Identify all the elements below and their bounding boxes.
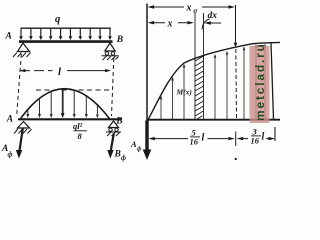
dx leader <box>202 19 210 30</box>
fictitious beam baseline <box>18 118 121 120</box>
label Af <box>1 144 13 159</box>
svg-text:A: A <box>6 114 13 124</box>
bottom dimension line 3/16 l <box>237 137 275 140</box>
reaction arrow Af (left, downward) <box>20 129 23 151</box>
dashed axis line below support A <box>17 54 22 114</box>
svg-text:l: l <box>58 66 62 78</box>
label x_c <box>186 3 199 15</box>
svg-text:A: A <box>5 32 12 42</box>
svg-text:B: B <box>114 150 121 160</box>
centroid line (solid above curve with down arrow) <box>235 5 237 43</box>
support A hatching <box>13 53 31 58</box>
label 5/16 l <box>190 128 205 147</box>
svg-text:16: 16 <box>251 136 260 146</box>
svg-text:M(x): M(x) <box>176 88 193 97</box>
fictitious load ordinate arrows <box>26 90 99 118</box>
svg-text:8: 8 <box>78 131 83 141</box>
bottom support A (pin) <box>18 122 30 129</box>
support B hatching <box>103 56 119 60</box>
reaction arrow Bf (right, downward) <box>111 134 114 151</box>
label Af at axis of right diagram <box>130 139 142 153</box>
label Bf <box>114 150 127 163</box>
svg-text:ql²: ql² <box>73 121 83 131</box>
label 3/16 l <box>251 127 265 146</box>
support A (pin) <box>18 43 30 52</box>
bottom support B hatching <box>107 132 120 136</box>
svg-text:q: q <box>55 14 60 25</box>
roller circles B <box>105 52 108 55</box>
svg-text:ф: ф <box>137 146 142 153</box>
svg-text:l: l <box>262 132 265 143</box>
svg-text:l: l <box>202 133 205 144</box>
bottom dimension line 5/16 l <box>148 132 235 147</box>
svg-text:16: 16 <box>190 137 199 147</box>
distributed load arrows <box>19 29 112 40</box>
dimension x_c (top) <box>148 5 235 8</box>
svg-text:σ: σ <box>193 6 198 15</box>
centroid line dashed below curve <box>235 49 238 120</box>
load line (top of distributed load q) <box>21 27 111 29</box>
watermark pink strip <box>250 46 270 123</box>
end ordinate at half-span <box>271 43 274 120</box>
dimension line l <box>20 69 112 72</box>
bottom support A hatching <box>14 129 32 134</box>
ordinate arrows under curve <box>160 44 267 120</box>
stray scan dot <box>235 158 237 160</box>
elementary strip borders <box>194 13 196 120</box>
svg-text:A: A <box>130 139 137 149</box>
baseline of right diagram <box>147 119 280 121</box>
svg-text:ф: ф <box>121 154 126 162</box>
svg-text:x: x <box>186 3 192 14</box>
svg-text:ф: ф <box>8 151 13 159</box>
svg-text:dx: dx <box>208 11 218 21</box>
support B (roller) <box>105 43 115 51</box>
bottom support B (roller) <box>109 121 119 128</box>
big fictitious reaction arrow at axis <box>145 121 148 152</box>
half-span moment curve <box>148 42 281 120</box>
moment parabola (fictitious load) <box>20 89 110 120</box>
svg-text:B: B <box>116 35 123 45</box>
svg-text:metclad.ru: metclad.ru <box>253 42 267 121</box>
dashed tangent line at parabola apex <box>36 89 111 91</box>
vertical axis <box>146 4 148 121</box>
bottom support B ground line <box>106 131 121 133</box>
bottom roller circles <box>109 128 112 131</box>
end ordinate extension to dimension line <box>274 127 276 141</box>
beam <box>19 40 113 43</box>
svg-text:x: x <box>167 19 173 30</box>
label ql^2/8 <box>73 121 87 141</box>
strip hatching <box>195 56 204 120</box>
support B ground line <box>102 55 119 57</box>
dimension x <box>148 21 194 24</box>
dx dimension line (right of strip) <box>204 21 221 24</box>
svg-text:B: B <box>115 116 122 126</box>
dashed axis line below support B <box>112 58 114 116</box>
